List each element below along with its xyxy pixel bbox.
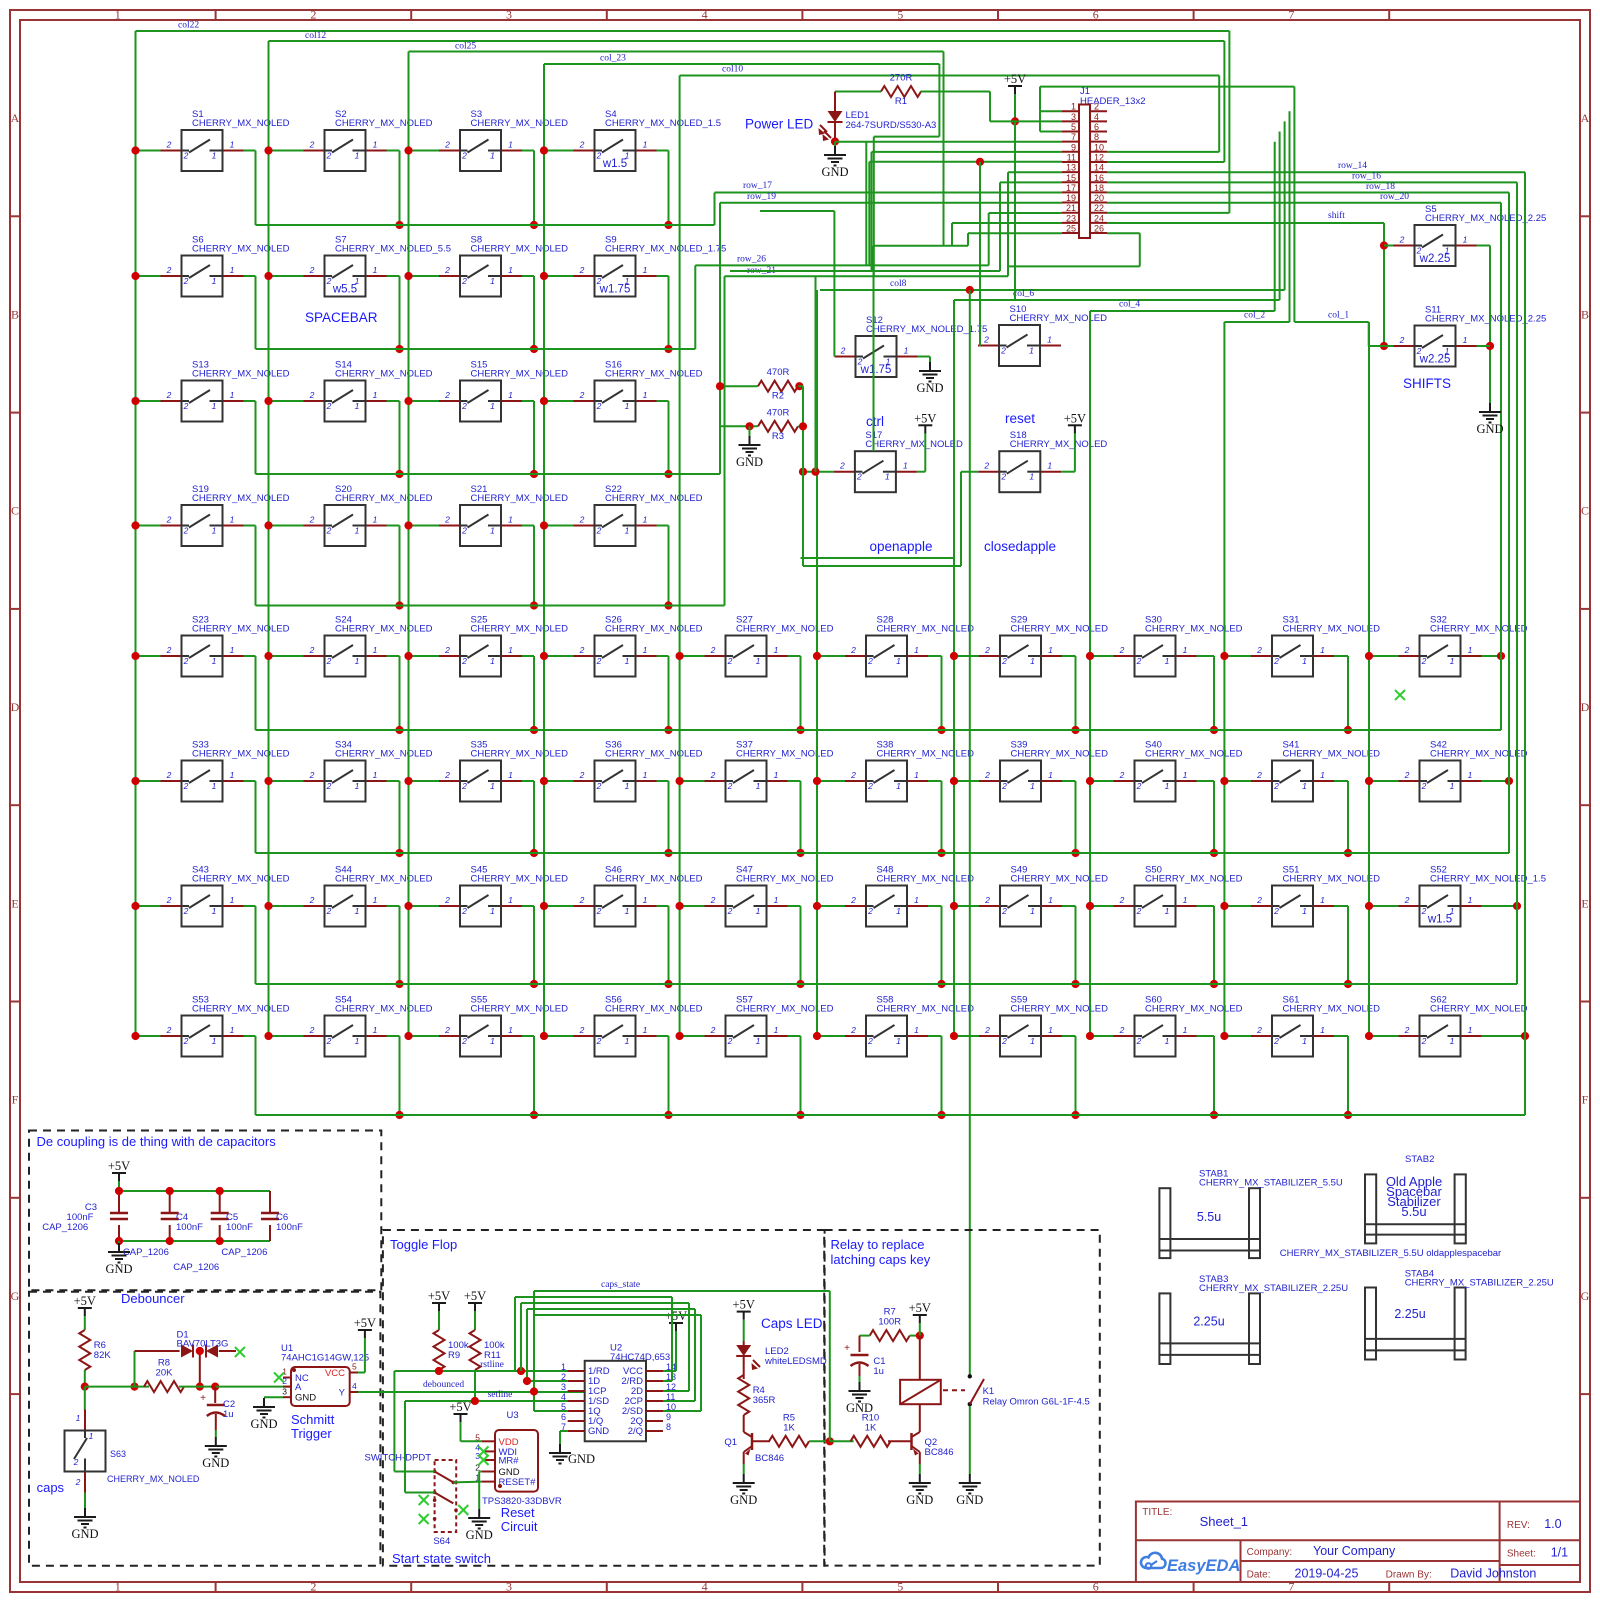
svg-text:+5V: +5V: [449, 1400, 471, 1414]
svg-text:2: 2: [1273, 656, 1279, 666]
svg-text:1: 1: [373, 140, 378, 150]
svg-text:2: 2: [579, 265, 585, 275]
wire U1 GND pin to ground: [264, 1396, 283, 1398]
svg-text:2: 2: [1001, 906, 1007, 916]
svg-text:5.5u: 5.5u: [1197, 1210, 1221, 1224]
svg-text:SWITCH-DPDT: SWITCH-DPDT: [365, 1453, 432, 1464]
svg-text:1: 1: [355, 151, 360, 161]
svg-text:2: 2: [596, 906, 602, 916]
switch S14: [304, 360, 433, 422]
svg-text:w1.75: w1.75: [599, 284, 631, 296]
svg-text:CHERRY_MX_NOLED: CHERRY_MX_NOLED: [192, 493, 290, 504]
svg-text:1: 1: [1468, 1025, 1473, 1035]
svg-text:19: 19: [1066, 193, 1076, 203]
ground: [1476, 403, 1503, 436]
svg-text:14: 14: [1094, 163, 1104, 173]
svg-text:2: 2: [326, 276, 332, 286]
svg-text:MR#: MR#: [499, 1456, 520, 1467]
svg-text:w2.25: w2.25: [1419, 253, 1451, 265]
svg-text:1: 1: [643, 645, 648, 655]
switch S38: [845, 740, 974, 802]
svg-text:1: 1: [508, 140, 513, 150]
wire U3 VDD to +5V: [461, 1421, 483, 1441]
svg-text:GND: GND: [1476, 422, 1503, 436]
svg-text:debounced: debounced: [423, 1380, 464, 1390]
svg-text:G: G: [1581, 1289, 1590, 1303]
svg-text:4: 4: [561, 1392, 566, 1402]
svg-text:23: 23: [1066, 213, 1076, 223]
svg-text:Schmitt: Schmitt: [291, 1412, 335, 1427]
svg-text:1: 1: [1450, 656, 1455, 666]
svg-text:1: 1: [355, 781, 360, 791]
svg-text:Relay Omron G6L-1F-4.5: Relay Omron G6L-1F-4.5: [983, 1397, 1090, 1408]
svg-text:CHERRY_MX_NOLED: CHERRY_MX_NOLED: [335, 369, 433, 380]
svg-text:470R: 470R: [767, 407, 790, 418]
svg-text:F: F: [1582, 1093, 1589, 1107]
svg-text:CHERRY_MX_NOLED: CHERRY_MX_NOLED: [736, 874, 834, 885]
svg-text:1: 1: [1450, 1036, 1455, 1046]
svg-text:CHERRY_MX_NOLED: CHERRY_MX_NOLED: [192, 369, 290, 380]
svg-text:2: 2: [727, 656, 733, 666]
svg-text:1: 1: [373, 895, 378, 905]
svg-text:1: 1: [1463, 235, 1468, 245]
svg-text:2: 2: [166, 770, 172, 780]
wire LED1 cathode net to GND and pins 7/11/S10: [831, 137, 1062, 346]
svg-text:2: 2: [710, 770, 716, 780]
svg-text:CHERRY_MX_NOLED: CHERRY_MX_NOLED: [192, 118, 290, 129]
svg-text:1: 1: [1165, 906, 1170, 916]
svg-text:2: 2: [309, 140, 315, 150]
svg-text:CAP_1206: CAP_1206: [173, 1262, 219, 1273]
svg-text:2: 2: [984, 895, 990, 905]
svg-text:EasyEDA: EasyEDA: [1167, 1557, 1240, 1575]
ground: [730, 1474, 757, 1507]
svg-text:2: 2: [710, 895, 716, 905]
svg-text:CHERRY_MX_STABILIZER_2.25U: CHERRY_MX_STABILIZER_2.25U: [1199, 1283, 1348, 1294]
svg-text:CHERRY_MX_NOLED: CHERRY_MX_NOLED: [605, 369, 703, 380]
svg-text:4: 4: [702, 8, 708, 22]
svg-text:1/1: 1/1: [1551, 1546, 1568, 1560]
svg-text:CHERRY_MX_NOLED: CHERRY_MX_NOLED: [1010, 313, 1108, 324]
svg-text:CHERRY_MX_NOLED: CHERRY_MX_NOLED: [471, 369, 569, 380]
svg-text:2: 2: [1001, 1036, 1007, 1046]
switch S58: [845, 995, 974, 1057]
ground: [466, 1509, 493, 1542]
svg-text:2: 2: [326, 401, 332, 411]
svg-text:CHERRY_MX_NOLED: CHERRY_MX_NOLED: [605, 874, 703, 885]
IC U1 74AHC1G14GW,125: [281, 1343, 369, 1406]
svg-text:2: 2: [596, 151, 602, 161]
switch S30: [1114, 615, 1243, 677]
svg-text:16: 16: [1094, 173, 1104, 183]
svg-text:25: 25: [1066, 224, 1076, 234]
svg-text:13: 13: [1066, 163, 1076, 173]
svg-text:CHERRY_MX_NOLED: CHERRY_MX_NOLED: [1011, 749, 1109, 760]
switch S36: [574, 740, 703, 802]
svg-text:Q1: Q1: [724, 1437, 737, 1448]
svg-text:2: 2: [596, 1036, 602, 1046]
svg-text:CHERRY_MX_NOLED: CHERRY_MX_NOLED: [1010, 439, 1108, 450]
svg-text:1: 1: [1183, 770, 1188, 780]
svg-text:2: 2: [579, 1025, 585, 1035]
svg-text:5: 5: [897, 8, 903, 22]
switch S60: [1114, 995, 1243, 1057]
svg-text:2: 2: [596, 656, 602, 666]
wire U2 VCC: [663, 1331, 676, 1371]
svg-text:C: C: [1581, 504, 1589, 518]
ground: [202, 1437, 229, 1470]
svg-text:2: 2: [309, 390, 315, 400]
svg-text:CHERRY_MX_NOLED: CHERRY_MX_NOLED: [865, 439, 963, 450]
svg-text:100R: 100R: [878, 1317, 901, 1328]
svg-text:2: 2: [710, 1025, 716, 1035]
svg-text:CHERRY_MX_STABILIZER_5.5U olda: CHERRY_MX_STABILIZER_5.5U oldapplespaceb…: [1280, 1248, 1501, 1259]
switch S13: [161, 360, 290, 422]
svg-text:2: 2: [856, 472, 862, 482]
+5V power flag: [665, 1309, 687, 1331]
svg-text:2: 2: [1273, 906, 1279, 916]
svg-text:1: 1: [1463, 335, 1468, 345]
svg-text:Drawn By:: Drawn By:: [1386, 1570, 1432, 1581]
svg-text:1: 1: [643, 265, 648, 275]
switch S57: [705, 995, 834, 1057]
switch S3: [439, 109, 568, 171]
svg-text:1: 1: [89, 1431, 94, 1441]
svg-text:BC846: BC846: [925, 1447, 954, 1458]
svg-text:17: 17: [1066, 183, 1076, 193]
svg-text:2: 2: [579, 770, 585, 780]
svg-text:100nF: 100nF: [226, 1222, 253, 1233]
wire relay feed vertical: [969, 290, 971, 1376]
svg-text:1: 1: [1030, 1036, 1035, 1046]
svg-text:whiteLEDSMD: whiteLEDSMD: [764, 1356, 827, 1367]
svg-text:1: 1: [1030, 906, 1035, 916]
labels decoupling caps: [42, 1202, 303, 1273]
svg-text:1: 1: [490, 1036, 495, 1046]
+5V power flag: [428, 1289, 450, 1311]
switch S61: [1251, 995, 1380, 1057]
svg-text:1: 1: [643, 1025, 648, 1035]
svg-text:col8: col8: [890, 279, 907, 289]
relay K1 contact: [968, 1374, 1090, 1407]
svg-text:caps: caps: [37, 1480, 65, 1495]
svg-text:1: 1: [1183, 645, 1188, 655]
svg-text:CHERRY_MX_NOLED: CHERRY_MX_NOLED: [1145, 749, 1243, 760]
svg-text:Circuit: Circuit: [501, 1519, 538, 1534]
svg-text:caps_state: caps_state: [601, 1280, 640, 1290]
wire U3 GND: [479, 1472, 482, 1510]
svg-text:6: 6: [561, 1412, 566, 1422]
svg-text:1: 1: [774, 770, 779, 780]
svg-text:2: 2: [1421, 781, 1427, 791]
svg-text:1: 1: [903, 461, 908, 471]
wire U1 VCC to +5V: [358, 1338, 365, 1373]
svg-text:2: 2: [444, 895, 450, 905]
svg-text:2: 2: [984, 770, 990, 780]
svg-text:1: 1: [914, 770, 919, 780]
svg-text:2: 2: [1094, 102, 1099, 112]
svg-text:1.0: 1.0: [1544, 1517, 1561, 1531]
ground: [906, 1474, 933, 1507]
svg-text:4: 4: [352, 1381, 357, 1391]
svg-text:CHERRY_MX_NOLED: CHERRY_MX_NOLED: [1145, 874, 1243, 885]
capacitor C4: [161, 1213, 179, 1219]
svg-text:2: 2: [1399, 235, 1405, 245]
svg-text:1: 1: [230, 770, 235, 780]
svg-text:10: 10: [1094, 142, 1104, 152]
wire right row nets row_14 row_16 row_18 row_20: [1107, 161, 1525, 1115]
svg-text:CHERRY_MX_NOLED: CHERRY_MX_NOLED: [877, 874, 975, 885]
svg-text:CHERRY_MX_NOLED: CHERRY_MX_NOLED: [471, 749, 569, 760]
wire top column bus horizontals col22 col12 col25 col_23 col10: [136, 21, 1230, 452]
svg-text:1: 1: [643, 515, 648, 525]
svg-text:1: 1: [1165, 656, 1170, 666]
svg-text:2: 2: [183, 151, 189, 161]
svg-text:col10: col10: [722, 65, 743, 75]
svg-text:2: 2: [1119, 645, 1125, 655]
svg-text:SHIFTS: SHIFTS: [1403, 376, 1451, 391]
svg-text:2: 2: [867, 781, 873, 791]
resistor R6: [79, 1330, 111, 1370]
svg-text:2: 2: [1119, 770, 1125, 780]
svg-text:2: 2: [850, 895, 856, 905]
ground: [250, 1398, 277, 1431]
svg-text:2: 2: [73, 1457, 79, 1467]
switch S62: [1399, 995, 1528, 1057]
svg-text:2: 2: [326, 781, 332, 791]
svg-text:2: 2: [727, 781, 733, 791]
svg-text:2: 2: [983, 335, 989, 345]
svg-text:R9: R9: [448, 1350, 460, 1361]
ground: [71, 1508, 98, 1541]
svg-text:TITLE:: TITLE:: [1142, 1507, 1172, 1518]
capacitor C1 1u polarized: [844, 1343, 885, 1382]
switch S55: [439, 995, 568, 1057]
EasyEDA logo: [1141, 1553, 1240, 1575]
switch S16: [574, 360, 703, 422]
svg-text:CHERRY_MX_NOLED: CHERRY_MX_NOLED: [335, 1004, 433, 1015]
svg-text:1: 1: [230, 515, 235, 525]
svg-text:row_26: row_26: [737, 255, 766, 265]
wire +5V rail decoupling: [115, 1181, 270, 1245]
+5V power flag: [464, 1289, 486, 1311]
svg-text:2: 2: [444, 265, 450, 275]
svg-text:2: 2: [310, 8, 316, 22]
svg-text:Caps LED: Caps LED: [761, 1316, 823, 1331]
wire column buses (vertical): [136, 31, 1370, 1036]
switch S51: [1251, 865, 1380, 927]
switch S33: [161, 740, 290, 802]
svg-text:2: 2: [710, 645, 716, 655]
svg-text:7: 7: [1288, 8, 1294, 22]
svg-text:1: 1: [756, 781, 761, 791]
svg-text:row_16: row_16: [1352, 172, 1381, 182]
+5V power flag: [914, 411, 936, 433]
ground: [549, 1444, 571, 1464]
svg-text:3: 3: [506, 8, 512, 22]
svg-text:1: 1: [643, 895, 648, 905]
svg-text:CHERRY_MX_NOLED_2.25: CHERRY_MX_NOLED_2.25: [1425, 314, 1546, 325]
svg-text:A: A: [1581, 111, 1590, 125]
switch S31: [1251, 615, 1380, 677]
svg-text:VCC: VCC: [325, 1368, 345, 1379]
svg-text:1: 1: [212, 906, 217, 916]
svg-text:1: 1: [625, 656, 630, 666]
+5V power flag: [1004, 72, 1026, 94]
wire header-left pin stubs to bundle: [872, 87, 1063, 277]
resistor R9: [434, 1330, 469, 1370]
svg-text:F: F: [12, 1093, 19, 1107]
svg-text:2: 2: [309, 895, 315, 905]
svg-text:2: 2: [984, 645, 990, 655]
svg-text:1: 1: [212, 151, 217, 161]
svg-text:Your Company: Your Company: [1313, 1544, 1396, 1558]
switch S23: [161, 615, 290, 677]
svg-text:CHERRY_MX_NOLED_1.5: CHERRY_MX_NOLED_1.5: [605, 118, 721, 129]
svg-text:1: 1: [914, 1025, 919, 1035]
svg-text:1: 1: [212, 1036, 217, 1046]
svg-text:2: 2: [326, 656, 332, 666]
svg-text:GND: GND: [466, 1528, 493, 1542]
svg-text:2: 2: [183, 1036, 189, 1046]
svg-text:1: 1: [1183, 1025, 1188, 1035]
svg-text:3: 3: [506, 1580, 512, 1594]
resistor R8: [144, 1358, 184, 1393]
svg-text:CAP_1206: CAP_1206: [123, 1247, 169, 1258]
svg-text:1K: 1K: [865, 1422, 877, 1433]
svg-text:1: 1: [230, 1025, 235, 1035]
svg-text:CHERRY_MX_NOLED: CHERRY_MX_NOLED: [605, 749, 703, 760]
svg-text:2: 2: [579, 390, 585, 400]
wire R5 to caps_state vertical: [809, 1291, 854, 1445]
transistor Q2 BC846: [888, 1432, 954, 1464]
svg-text:1: 1: [373, 265, 378, 275]
svg-text:1: 1: [355, 1036, 360, 1046]
svg-text:1: 1: [230, 265, 235, 275]
svg-text:5: 5: [352, 1362, 357, 1372]
svg-text:1: 1: [625, 401, 630, 411]
svg-text:col_6: col_6: [1013, 289, 1034, 299]
svg-text:1: 1: [230, 390, 235, 400]
svg-text:CHERRY_MX_NOLED: CHERRY_MX_NOLED: [471, 874, 569, 885]
svg-text:GND: GND: [730, 1493, 757, 1507]
resistor R5: [769, 1412, 809, 1447]
switch S48: [845, 865, 974, 927]
svg-text:1: 1: [1320, 1025, 1325, 1035]
svg-text:1: 1: [1030, 781, 1035, 791]
svg-text:2: 2: [1421, 656, 1427, 666]
switch S37: [705, 740, 834, 802]
svg-text:closedapple: closedapple: [984, 539, 1056, 554]
svg-text:Sheet_1: Sheet_1: [1200, 1514, 1248, 1529]
wire R6 net: [81, 1316, 149, 1410]
switch S11: [1394, 305, 1547, 367]
svg-text:GND: GND: [71, 1527, 98, 1541]
svg-text:1: 1: [490, 276, 495, 286]
+5V power flag: [74, 1294, 96, 1316]
svg-text:1: 1: [212, 276, 217, 286]
switch S35: [439, 740, 568, 802]
svg-text:David Johnston: David Johnston: [1450, 1567, 1536, 1581]
svg-text:CHERRY_MX_NOLED: CHERRY_MX_NOLED: [335, 749, 433, 760]
svg-text:2: 2: [461, 906, 467, 916]
switch S21: [439, 484, 568, 546]
svg-text:2: 2: [867, 906, 873, 916]
svg-text:3: 3: [561, 1382, 566, 1392]
svg-text:1: 1: [282, 1367, 287, 1377]
switch S22: [574, 484, 703, 546]
svg-text:1: 1: [230, 645, 235, 655]
svg-text:1: 1: [896, 1036, 901, 1046]
svg-text:2: 2: [444, 770, 450, 780]
svg-text:82K: 82K: [94, 1350, 112, 1361]
svg-text:row_19: row_19: [747, 192, 776, 202]
svg-text:+5V: +5V: [464, 1289, 486, 1303]
svg-text:2: 2: [444, 645, 450, 655]
svg-text:Debouncer: Debouncer: [121, 1291, 185, 1306]
svg-text:2: 2: [1256, 1025, 1262, 1035]
svg-text:5: 5: [1071, 122, 1076, 132]
svg-text:B: B: [1581, 307, 1589, 321]
svg-text:GND: GND: [906, 1493, 933, 1507]
wire caps_state: [534, 1280, 830, 1411]
svg-text:latching caps key: latching caps key: [831, 1252, 931, 1267]
ground: [821, 146, 848, 179]
svg-text:1: 1: [1029, 346, 1034, 356]
svg-text:2: 2: [309, 1025, 315, 1035]
svg-text:1: 1: [76, 1413, 81, 1423]
svg-text:9: 9: [666, 1412, 671, 1422]
svg-text:CHERRY_MX_NOLED_2.25: CHERRY_MX_NOLED_2.25: [1425, 213, 1546, 224]
svg-text:GND: GND: [736, 455, 763, 469]
svg-text:2: 2: [1136, 1036, 1142, 1046]
svg-text:2: 2: [166, 515, 172, 525]
ground: [846, 1382, 873, 1415]
svg-text:A: A: [295, 1382, 302, 1393]
svg-text:w1.75: w1.75: [860, 364, 892, 376]
svg-text:6: 6: [1094, 122, 1099, 132]
svg-text:1: 1: [115, 1580, 121, 1594]
svg-text:B: B: [11, 307, 19, 321]
svg-text:1u: 1u: [223, 1409, 234, 1420]
svg-text:2: 2: [984, 1025, 990, 1035]
svg-text:2: 2: [1000, 472, 1006, 482]
svg-text:w2.25: w2.25: [1419, 354, 1451, 366]
switch S4: [574, 109, 721, 171]
svg-text:24: 24: [1094, 213, 1104, 223]
svg-text:reset: reset: [1005, 411, 1035, 426]
svg-text:2: 2: [309, 515, 315, 525]
switch S12: [835, 315, 988, 377]
svg-text:2: 2: [166, 645, 172, 655]
transistor Q1 BC846: [724, 1415, 784, 1464]
svg-text:1: 1: [896, 906, 901, 916]
svg-text:CHERRY_MX_NOLED: CHERRY_MX_NOLED: [192, 624, 290, 635]
svg-text:E: E: [11, 896, 18, 910]
svg-text:2: 2: [444, 390, 450, 400]
svg-text:2: 2: [461, 401, 467, 411]
svg-text:2: 2: [1399, 335, 1405, 345]
svg-text:18: 18: [1094, 183, 1104, 193]
svg-text:GND: GND: [250, 1417, 277, 1431]
svg-text:CHERRY_MX_NOLED: CHERRY_MX_NOLED: [192, 749, 290, 760]
svg-text:CHERRY_MX_NOLED: CHERRY_MX_NOLED: [1430, 624, 1528, 635]
switch S27: [705, 615, 834, 677]
wire left row nets row_17 row_19 row_26 row_21: [695, 181, 1062, 606]
svg-text:1: 1: [508, 390, 513, 400]
svg-text:1: 1: [885, 472, 890, 482]
svg-text:20: 20: [1094, 193, 1104, 203]
